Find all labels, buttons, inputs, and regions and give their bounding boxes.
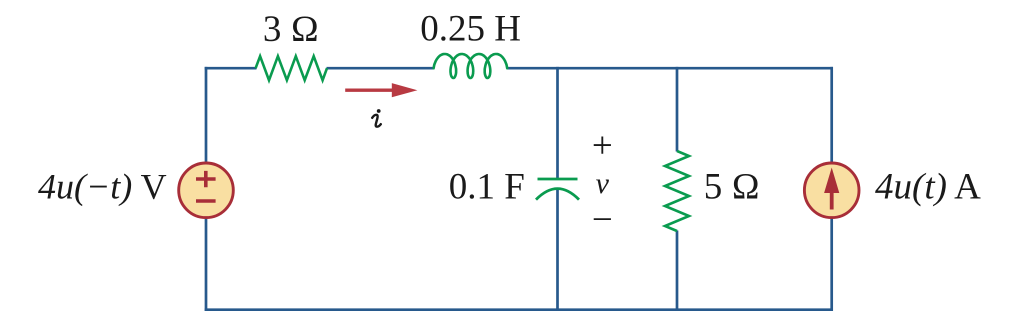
wire capacitor branch upper <box>556 67 559 179</box>
inductor L 0.25 H coil <box>434 54 508 78</box>
svg-text:4u(−t) V: 4u(−t) V <box>38 166 167 206</box>
wire capacitor branch lower <box>556 189 559 311</box>
svg-text:5 Ω: 5 Ω <box>704 166 760 207</box>
svg-text:4u(t) A: 4u(t) A <box>875 166 981 207</box>
current label i <box>372 109 381 127</box>
wire right above current source <box>830 67 833 163</box>
wire between resistor and inductor <box>327 67 435 70</box>
wire left above voltage source <box>205 67 208 163</box>
wire left below voltage source <box>205 218 208 311</box>
wire 5-ohm branch lower <box>676 231 679 312</box>
current arrow i <box>345 83 417 97</box>
current source I1 circle <box>804 163 859 218</box>
voltage source V1 circle <box>179 163 234 218</box>
wire inductor to top-right corner <box>507 67 834 70</box>
wire top-left segment <box>205 67 257 70</box>
resistor 5-ohm zigzag <box>665 151 689 231</box>
svg-text:+: + <box>592 126 613 167</box>
resistor R 3-ohm zigzag <box>256 56 327 80</box>
svg-text:3 Ω: 3 Ω <box>263 9 319 50</box>
capacitor bottom curved plate <box>536 189 579 200</box>
voltage source minus sign <box>196 199 216 203</box>
current source arrow <box>824 168 839 210</box>
wire bottom <box>205 308 833 311</box>
wire 5-ohm branch upper <box>676 67 679 152</box>
voltage source plus sign <box>196 171 216 187</box>
svg-text:−: − <box>592 200 613 241</box>
svg-text:v: v <box>596 167 610 200</box>
svg-text:0.1 F: 0.1 F <box>449 166 525 207</box>
svg-text:0.25 H: 0.25 H <box>420 9 521 50</box>
capacitor C 0.1 F top plate <box>538 178 578 181</box>
wire right below current source <box>830 218 833 311</box>
